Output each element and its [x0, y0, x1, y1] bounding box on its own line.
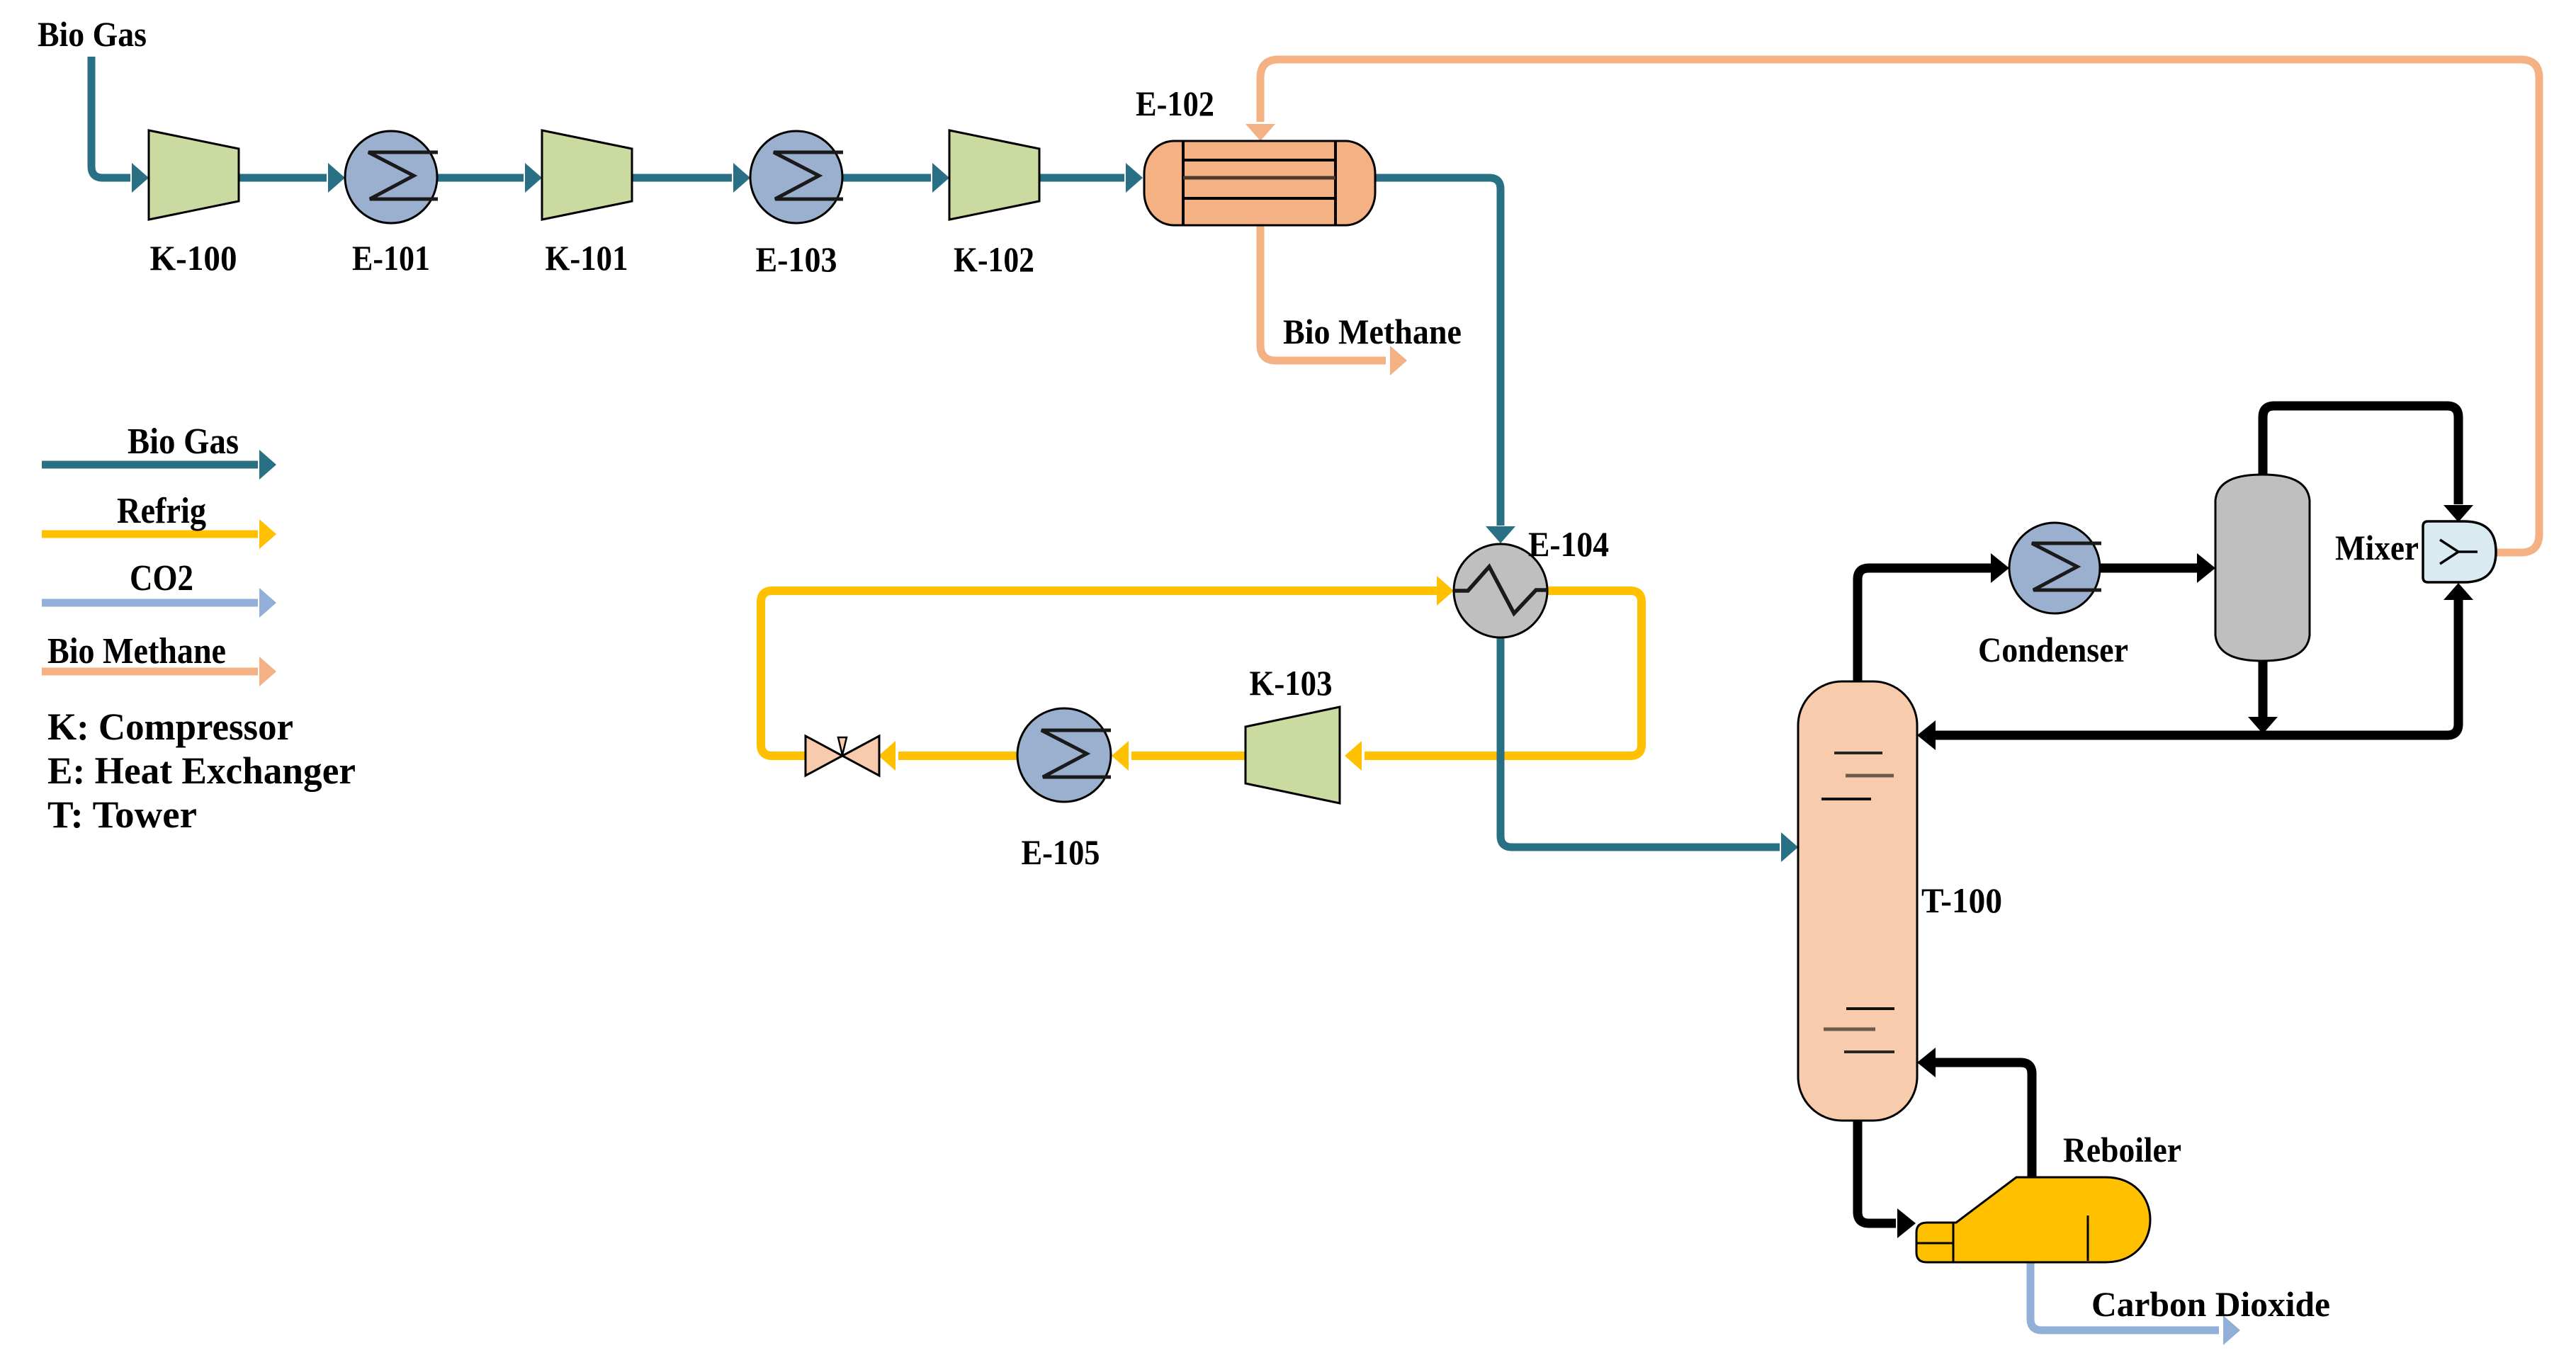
heat exchanger E-104	[1454, 544, 1547, 637]
arrow: peach into E-102 top	[1245, 124, 1275, 141]
arrow: feed into T-100	[1781, 832, 1798, 862]
arrow: into E-104 top	[1486, 526, 1515, 543]
wire: tower bottoms to reboiler (black)	[1858, 1121, 1896, 1223]
wire: condenser to reflux drum (black)	[2100, 564, 2197, 573]
arrow: bottoms into reboiler	[1897, 1208, 1916, 1238]
tower T-100	[1798, 681, 1917, 1121]
svg-text:K-101: K-101	[546, 238, 628, 278]
arrow: feed into K-100	[132, 163, 149, 193]
arrow: reflux into tower	[1917, 720, 1936, 750]
arrow: into condenser	[1991, 553, 2009, 583]
svg-text:K: Compressor: K: Compressor	[47, 705, 293, 748]
arrow: drum bottoms junction	[2248, 717, 2278, 734]
wire: bio methane product out of E-102 (peach)	[1260, 225, 1386, 361]
condenser	[2009, 523, 2101, 613]
arrow: into E-103	[733, 163, 750, 193]
wire: E-104 to T-100 feed (bio gas)	[1501, 637, 1780, 847]
svg-text:CO2: CO2	[130, 558, 193, 599]
arrow: into E-102	[1126, 163, 1143, 193]
arrow: into K-102	[932, 163, 949, 193]
wire: reboiler vapor return to tower (black)	[1936, 1062, 2032, 1177]
svg-text:E-101: E-101	[352, 238, 430, 278]
wire: K-102 to E-102	[1039, 174, 1124, 182]
wire: refrigerant E-104 to K-103 return (yellow)	[1365, 591, 1642, 756]
svg-text:Carbon Dioxide: Carbon Dioxide	[2091, 1284, 2330, 1324]
legend arrow bio methane	[42, 657, 276, 686]
wire: reflux drum overhead to mixer (black)	[2263, 406, 2458, 504]
arrow: vapor into tower	[1917, 1048, 1936, 1077]
svg-text:Condenser: Condenser	[1978, 630, 2128, 669]
svg-text:Bio Gas: Bio Gas	[38, 14, 147, 54]
svg-text:E: Heat Exchanger: E: Heat Exchanger	[47, 749, 356, 792]
mixer	[2423, 521, 2496, 582]
wire: reflux drum bottoms to junction (black)	[2259, 661, 2268, 717]
legend arrow co2	[42, 588, 276, 618]
svg-text:Mixer: Mixer	[2335, 528, 2419, 567]
arrow: into mixer top	[2444, 505, 2473, 522]
arrow: yellow into K-103	[1345, 741, 1362, 771]
arrow: carbon dioxide out	[2223, 1315, 2240, 1345]
compressor K-100	[149, 130, 239, 220]
svg-text:Refrig: Refrig	[117, 491, 206, 531]
svg-text:T-100: T-100	[1921, 880, 2002, 920]
arrow: into reflux drum	[2197, 553, 2215, 583]
svg-text:K-102: K-102	[954, 239, 1034, 279]
cooler E-105	[1017, 708, 1111, 802]
wire: E-102 to E-104 (bio gas)	[1375, 178, 1501, 526]
wire: mixer bottom to tower reflux return (black)	[1936, 599, 2458, 735]
cooler E-101	[345, 131, 438, 223]
compressor K-101	[542, 130, 632, 220]
svg-text:Bio Gas: Bio Gas	[128, 421, 239, 462]
svg-text:Bio Methane: Bio Methane	[47, 631, 226, 671]
wire: T-100 overhead to condenser (black)	[1858, 568, 1991, 681]
reboiler	[1916, 1177, 2150, 1262]
wire: E-101 to K-101	[437, 174, 524, 182]
wire: E-103 to K-102	[842, 174, 931, 182]
wire: refrigerant E-105 to valve (yellow)	[898, 752, 1017, 760]
svg-text:E-104: E-104	[1528, 524, 1609, 564]
svg-text:Reboiler: Reboiler	[2063, 1130, 2181, 1169]
wire: carbon dioxide product (light blue)	[2030, 1262, 2219, 1330]
arrow: into E-101	[328, 163, 345, 193]
heat exchanger E-102	[1144, 141, 1375, 225]
svg-text:T: Tower: T: Tower	[47, 793, 197, 836]
legend arrow refrig	[42, 519, 276, 549]
wire: bio methane recycle mixer to E-102 (peach)	[1260, 59, 2539, 552]
svg-text:E-102: E-102	[1136, 84, 1214, 123]
arrow: yellow into valve	[879, 741, 896, 771]
wire: K-100 to E-101	[239, 174, 327, 182]
svg-text:K-100: K-100	[150, 238, 237, 278]
svg-text:Bio Methane: Bio Methane	[1283, 312, 1462, 351]
arrow: yellow into E-104	[1437, 576, 1454, 606]
svg-text:E-105: E-105	[1022, 832, 1100, 872]
wire: bio gas feed inlet	[91, 57, 130, 178]
svg-text:K-103: K-103	[1250, 663, 1333, 703]
reflux drum (gray vessel)	[2215, 475, 2310, 661]
wire: refrigerant loop valve-to-E104 (yellow)	[761, 591, 1437, 756]
arrow: into K-101	[525, 163, 542, 193]
wire: K-101 to E-103	[632, 174, 732, 182]
compressor K-102	[949, 130, 1039, 220]
arrow: bio methane product	[1390, 346, 1407, 375]
svg-text:E-103: E-103	[756, 239, 837, 279]
wire: refrigerant K-103 to E-105 (yellow)	[1131, 752, 1245, 760]
arrow: yellow into E-105	[1112, 741, 1129, 771]
compressor K-103	[1245, 707, 1340, 803]
legend arrow bio gas	[42, 450, 276, 480]
valve (refrigerant JT valve)	[806, 736, 879, 776]
cooler E-103	[750, 131, 843, 223]
arrow: into mixer bottom	[2444, 583, 2473, 600]
